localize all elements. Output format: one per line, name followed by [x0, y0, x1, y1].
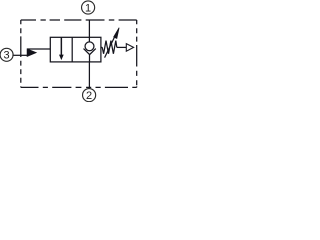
down arrow head [60, 55, 64, 59]
port 3 line [12, 54, 27, 56]
port 2 label circle [83, 89, 96, 102]
check ball stem below [89, 55, 91, 62]
valve body outer rect [50, 37, 101, 62]
svg-text:2: 2 [86, 90, 92, 102]
check ball circle [85, 42, 94, 51]
down arrow line (left square flow path) [60, 37, 62, 55]
port 3 label circle [0, 48, 13, 61]
port 1 label circle [82, 1, 95, 14]
port 2 line [88, 62, 90, 88]
svg-text:3: 3 [4, 50, 10, 62]
check ball stem above [88, 37, 90, 42]
envelope left edge (dashed) [20, 20, 22, 87]
envelope top edge (dashed) [21, 19, 137, 21]
port 1 line [88, 20, 90, 37]
spring zigzag [102, 41, 117, 54]
adjustment arrow shaft [105, 38, 115, 58]
envelope bottom edge (dashed) [21, 86, 137, 88]
envelope right edge (dashed) [136, 20, 138, 87]
svg-text:1: 1 [85, 2, 91, 14]
divider between position squares [71, 37, 73, 62]
line pilot triangle to valve [27, 48, 50, 50]
check valve seat V [84, 49, 96, 55]
open triangle (vent, pointing right) [126, 44, 133, 52]
adjustment arrow solid head [114, 28, 119, 39]
spring stub [101, 46, 102, 48]
pilot solid triangle (port 3 actuator) [27, 49, 36, 56]
spring to open triangle line [117, 46, 127, 48]
